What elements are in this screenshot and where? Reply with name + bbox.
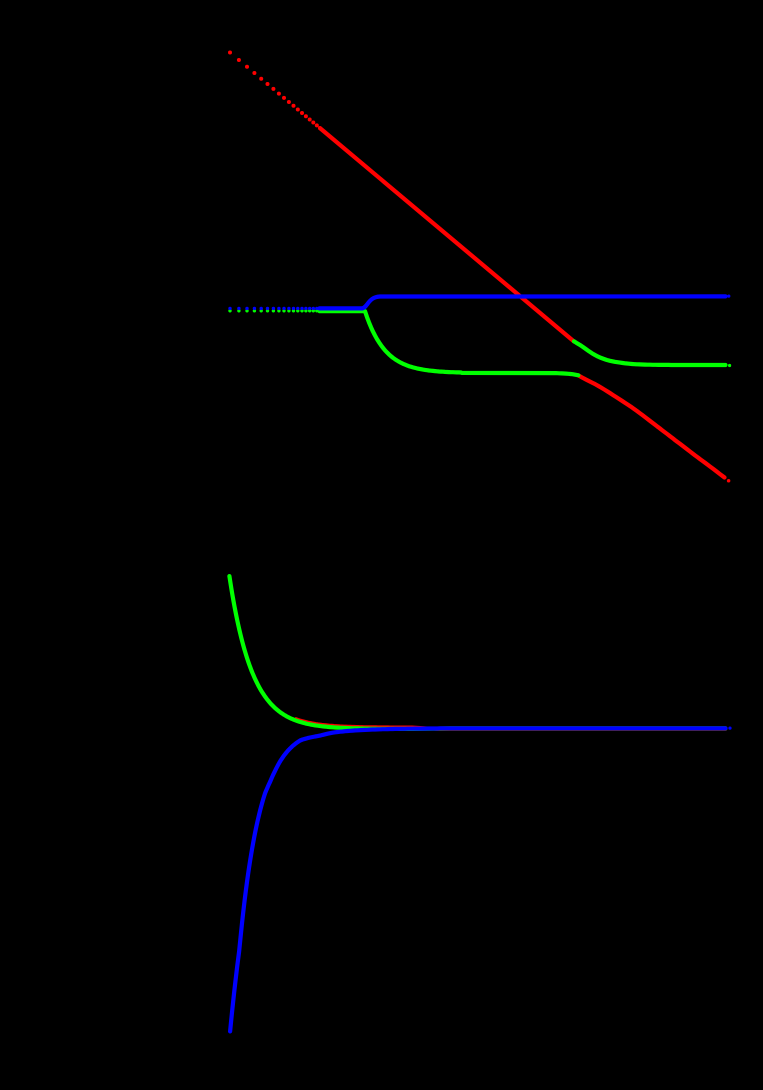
bottom blue end dot [728,727,731,730]
bottom green descending curve [229,576,725,729]
bottom blue ascending curve [230,728,725,1031]
top red diagonal line [320,128,574,341]
top red lower branch after crossing [578,375,724,477]
top blue line with step [320,296,726,308]
top green upper branch after crossing [574,341,726,365]
top blue marker dots [228,307,321,310]
top blue end dot [727,295,730,298]
top red lower end dot [727,479,731,483]
top green marker dots [228,309,321,312]
top red marker dots (log-spaced) [228,51,322,131]
top green end dot [728,364,731,367]
top green line: flat, drop, lower plateau [320,311,579,375]
bottom red equilibrium line [296,719,726,729]
